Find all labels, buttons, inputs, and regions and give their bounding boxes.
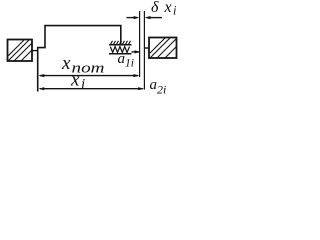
contact tick left (block to part face)	[32, 50, 38, 52]
delta x_i dimension arrows	[127, 16, 163, 19]
svg-text:x: x	[61, 53, 71, 74]
spring top plate	[109, 44, 132, 46]
nominal face line A	[139, 11, 141, 77]
dimension line x_nom	[38, 74, 139, 77]
dimension line x_i	[38, 87, 144, 90]
svg-text:δxi: δxi	[151, 0, 177, 18]
contact tick right (line B to block)	[144, 47, 149, 49]
spring bottom plate	[109, 53, 132, 55]
workpiece profile	[38, 26, 121, 92]
actual face line B	[143, 11, 145, 90]
spring anchor hatching	[111, 41, 131, 45]
spring force arrow to actual face	[132, 50, 141, 53]
left support block	[8, 40, 33, 62]
right support block	[149, 38, 177, 59]
svg-text:a2i: a2i	[150, 77, 167, 97]
spring a1i zigzag	[110, 47, 129, 53]
